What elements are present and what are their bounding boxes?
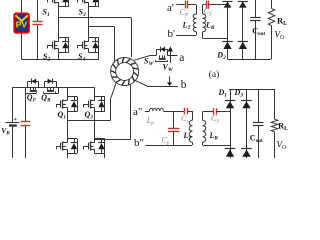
svg-text:a": a" <box>133 106 142 118</box>
svg-text:PV: PV <box>16 20 28 30</box>
svg-text:a': a' <box>167 2 174 14</box>
svg-text:b': b' <box>168 28 176 40</box>
svg-text:a: a <box>179 52 184 64</box>
svg-text:b: b <box>181 79 187 91</box>
svg-text:(a): (a) <box>209 69 220 80</box>
svg-text:+: + <box>13 116 17 123</box>
svg-text:b": b" <box>134 137 144 149</box>
